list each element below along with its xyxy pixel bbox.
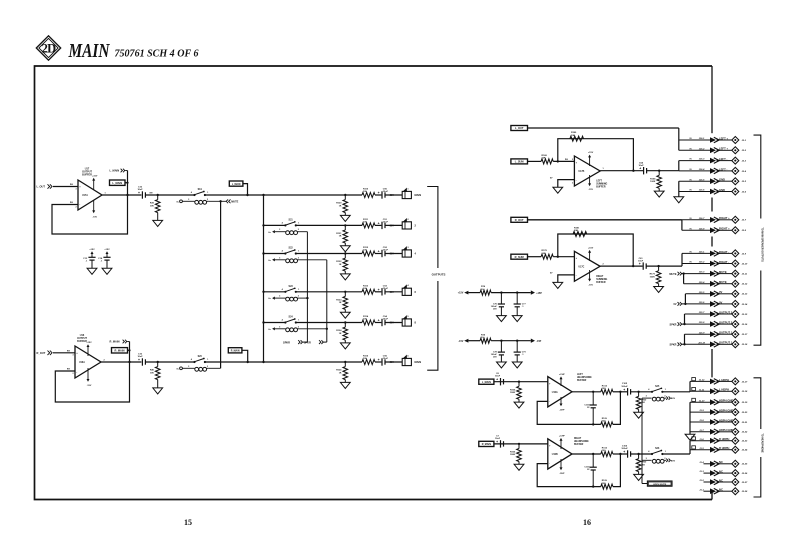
svg-text:+: + [378, 288, 380, 292]
svg-text:U10B: U10B [552, 454, 558, 456]
svg-text:+15V: +15V [92, 175, 98, 177]
svg-text:2D: 2D [42, 42, 56, 56]
svg-text:J2-20: J2-20 [742, 412, 748, 414]
svg-text:BUFFER: BUFFER [596, 186, 606, 188]
svg-text:10uF: 10uF [383, 191, 389, 193]
svg-text:J2-4: J2-4 [742, 170, 747, 173]
svg-text:2: 2 [72, 373, 73, 375]
svg-text:-: - [549, 399, 550, 403]
svg-text:R122: R122 [336, 261, 342, 263]
svg-text:R123: R123 [336, 299, 342, 301]
svg-text:J2-5: J2-5 [742, 181, 747, 183]
svg-text:25V: 25V [493, 357, 497, 359]
svg-text:U16A: U16A [79, 361, 85, 364]
svg-text:+15V: +15V [588, 152, 594, 154]
svg-text:1K: 1K [339, 264, 342, 266]
svg-text:B0V: B0V [671, 460, 676, 462]
svg-text:15: 15 [184, 518, 192, 527]
svg-text:+CHP: +CHP [559, 436, 565, 438]
svg-text:J2-21: J2-21 [742, 422, 748, 424]
svg-text:J2-16: J2-16 [742, 324, 748, 326]
svg-text:J2-22: J2-22 [742, 432, 748, 434]
svg-text:LEFT: LEFT [596, 180, 602, 182]
svg-text:J16-2: J16-2 [699, 148, 705, 150]
svg-text:SPKR: SPKR [304, 341, 311, 344]
svg-text:U17A: U17A [82, 194, 88, 197]
svg-text:+: + [378, 319, 380, 323]
svg-text:R_SUM: R_SUM [515, 255, 524, 259]
svg-text:J15-4: J15-4 [699, 281, 705, 284]
svg-text:BUFFER: BUFFER [574, 444, 584, 446]
svg-text:J2-14: J2-14 [742, 303, 748, 306]
svg-text:-15P: -15P [536, 340, 541, 343]
svg-text:U17B: U17B [578, 171, 584, 173]
svg-text:10uF: 10uF [495, 376, 501, 378]
svg-text:J16-3: J16-3 [699, 159, 705, 161]
svg-text:10uF: 10uF [383, 358, 389, 360]
svg-text:+: + [623, 388, 625, 392]
svg-text:L_SUM: L_SUM [515, 160, 524, 164]
svg-text:+: + [639, 262, 641, 266]
svg-text:J2-10: J2-10 [742, 263, 748, 265]
svg-text:L_MAIN: L_MAIN [112, 181, 122, 185]
svg-text:SUMMING: SUMMING [596, 279, 607, 281]
svg-text:R_MAIN: R_MAIN [110, 340, 120, 344]
svg-text:J2-1: J2-1 [742, 140, 747, 142]
svg-text:750761 SCH 4 OF 6: 750761 SCH 4 OF 6 [115, 49, 200, 60]
svg-text:-: - [549, 461, 550, 465]
svg-text:+: + [639, 167, 641, 171]
svg-text:1K: 1K [339, 302, 342, 304]
svg-text:25V: 25V [390, 195, 395, 197]
svg-text:J2-19: J2-19 [742, 402, 748, 404]
svg-text:R121: R121 [336, 233, 342, 235]
svg-text:J2-6: J2-6 [742, 191, 747, 193]
svg-text:10uF: 10uF [638, 165, 644, 167]
svg-text:+15V: +15V [86, 342, 92, 344]
svg-text:J1-8: J1-8 [699, 420, 704, 422]
svg-text:J1-12: J1-12 [699, 380, 705, 382]
svg-text:10K: 10K [150, 372, 154, 374]
svg-text:J16-8: J16-8 [699, 228, 705, 230]
svg-text:HEADPHONE: HEADPHONE [574, 440, 589, 443]
svg-text:25V: 25V [390, 323, 395, 325]
svg-text:L_MAIN: L_MAIN [482, 381, 491, 384]
svg-text:J16-7: J16-7 [699, 218, 705, 220]
svg-text:-15V: -15V [588, 285, 593, 287]
svg-text:J2-17: J2-17 [742, 381, 748, 383]
svg-text:J15-5: J15-5 [699, 292, 705, 294]
svg-text:3: 3 [72, 355, 73, 357]
svg-text:25V: 25V [390, 292, 395, 294]
svg-text:U10A: U10A [552, 391, 558, 394]
svg-text:+: + [138, 191, 140, 195]
svg-text:100K: 100K [650, 181, 656, 183]
svg-text:R_MAIN: R_MAIN [231, 350, 240, 353]
svg-text:+: + [138, 358, 140, 362]
svg-text:J1-5: J1-5 [699, 448, 704, 450]
svg-text:+: + [378, 358, 380, 362]
svg-text:-: - [76, 370, 77, 374]
svg-text:10uF: 10uF [383, 319, 389, 321]
svg-text:J2-2: J2-2 [742, 150, 747, 152]
svg-text:-CHP: -CHP [559, 473, 565, 475]
svg-text:-CHP: -CHP [559, 410, 565, 412]
svg-text:L_OUT: L_OUT [37, 185, 46, 189]
svg-text:J15-6: J15-6 [699, 302, 705, 304]
svg-text:J2-13: J2-13 [742, 294, 748, 296]
svg-text:J15-9: J15-9 [699, 332, 705, 334]
svg-text:SPKR: SPKR [283, 341, 290, 344]
svg-text:1K: 1K [339, 372, 342, 374]
svg-text:100K: 100K [510, 454, 516, 456]
svg-text:L_MAIN: L_MAIN [110, 169, 120, 173]
svg-text:10K: 10K [542, 253, 546, 255]
svg-text:2: 2 [75, 206, 76, 208]
svg-text:J2-12: J2-12 [742, 284, 748, 286]
svg-text:R124: R124 [336, 329, 342, 332]
svg-text:+: + [378, 250, 380, 254]
svg-text:10uF: 10uF [137, 356, 143, 358]
svg-text:R125: R125 [336, 370, 342, 372]
svg-text:25V: 25V [390, 362, 395, 364]
svg-text:J2-11: J2-11 [742, 274, 748, 276]
svg-text:+15P: +15P [536, 292, 542, 295]
svg-text:S23: S23 [289, 286, 294, 288]
svg-text:-: - [79, 202, 80, 206]
svg-text:J1-2: J1-2 [699, 480, 704, 482]
svg-text:J15-7: J15-7 [699, 312, 705, 314]
svg-text:MAIN: MAIN [415, 193, 422, 197]
svg-text:-15V: -15V [87, 385, 92, 387]
svg-text:+15V: +15V [588, 248, 594, 250]
svg-text:J2-3: J2-3 [742, 161, 747, 163]
svg-text:J16-4: J16-4 [699, 168, 705, 171]
svg-text:10uF: 10uF [137, 189, 143, 191]
svg-text:MUTE: MUTE [669, 273, 676, 276]
svg-text:J2-15: J2-15 [742, 314, 748, 316]
svg-text:10K: 10K [542, 158, 546, 160]
svg-text:100uF: 100uF [621, 448, 628, 450]
svg-text:BUFFER: BUFFER [82, 174, 92, 177]
svg-text:R106: R106 [510, 452, 516, 454]
svg-text:TO HEADPHONE: TO HEADPHONE [761, 433, 764, 453]
svg-text:J16-6: J16-6 [699, 190, 705, 192]
svg-text:25V: 25V [493, 309, 497, 311]
svg-text:3: 3 [75, 188, 76, 190]
svg-text:0V: 0V [673, 303, 676, 306]
svg-text:J2-28: J2-28 [742, 491, 748, 493]
svg-text:J1-10: J1-10 [699, 400, 705, 402]
svg-text:100K: 100K [650, 276, 656, 278]
svg-text:J2-24: J2-24 [742, 449, 748, 452]
svg-text:J15-2: J15-2 [699, 262, 705, 264]
svg-text:2: 2 [572, 159, 573, 161]
svg-text:10K: 10K [571, 135, 575, 137]
svg-text:S21: S21 [289, 220, 294, 222]
svg-text:LEFT: LEFT [577, 374, 583, 376]
svg-text:R_OUT: R_OUT [515, 218, 524, 222]
svg-text:10uF: 10uF [495, 438, 501, 440]
svg-text:S26: S26 [655, 448, 660, 450]
svg-text:MUTE: MUTE [231, 200, 238, 203]
svg-text:L_MAIN: L_MAIN [232, 183, 241, 186]
svg-text:-: - [576, 274, 577, 278]
svg-text:BUFFER: BUFFER [577, 380, 587, 382]
svg-text:10uF: 10uF [383, 250, 389, 252]
svg-text:S20: S20 [198, 356, 203, 358]
svg-text:16: 16 [583, 518, 591, 527]
svg-text:J2-7: J2-7 [742, 220, 747, 222]
svg-text:J15-8: J15-8 [699, 322, 705, 324]
svg-text:J2-26: J2-26 [742, 473, 748, 475]
svg-text:100uF: 100uF [621, 386, 628, 388]
svg-text:R_MAIN: R_MAIN [115, 349, 125, 353]
svg-text:J1-3: J1-3 [699, 471, 704, 473]
svg-text:J1-1: J1-1 [699, 489, 704, 491]
svg-text:10uF: 10uF [383, 288, 389, 290]
svg-text:1K: 1K [339, 333, 342, 335]
svg-text:+15V: +15V [89, 249, 95, 251]
svg-text:J2-18: J2-18 [742, 391, 748, 393]
svg-text:J2-23: J2-23 [742, 441, 748, 443]
svg-text:S19: S19 [198, 189, 203, 191]
svg-text:+: + [378, 191, 380, 195]
svg-text:L_OUT: L_OUT [515, 126, 524, 130]
svg-text:MAIN: MAIN [415, 360, 422, 364]
svg-text:J1-11: J1-11 [699, 389, 705, 391]
svg-text:R169: R169 [650, 178, 656, 180]
svg-text:R179: R179 [650, 274, 656, 276]
svg-text:TO MAIN SPEAKER OUTPUTS: TO MAIN SPEAKER OUTPUTS [761, 227, 764, 262]
svg-text:1K: 1K [339, 205, 342, 207]
svg-text:+: + [496, 440, 498, 444]
svg-text:J16-5: J16-5 [699, 179, 705, 181]
svg-text:J2-17: J2-17 [742, 334, 748, 336]
svg-text:J1-9: J1-9 [699, 410, 704, 412]
svg-text:J15-3: J15-3 [699, 272, 705, 274]
svg-text:R120: R120 [336, 203, 342, 205]
svg-text:-15V: -15V [458, 340, 463, 343]
svg-text:HDPH MUTE: HDPH MUTE [653, 484, 667, 486]
svg-text:J1-4: J1-4 [699, 461, 704, 464]
svg-text:J1-6: J1-6 [699, 439, 704, 441]
svg-text:1K: 1K [339, 236, 342, 238]
svg-text:R_OUT: R_OUT [37, 351, 46, 355]
svg-text:BUFFER: BUFFER [596, 282, 606, 284]
svg-text:3: 3 [572, 182, 573, 184]
svg-text:J2-27: J2-27 [742, 482, 748, 484]
svg-text:J16-1: J16-1 [699, 138, 705, 140]
svg-text:-15V: -15V [588, 189, 593, 191]
svg-text:J2-25: J2-25 [742, 464, 748, 466]
svg-text:J15-10: J15-10 [698, 342, 706, 344]
svg-text:J2-8: J2-8 [742, 230, 747, 232]
svg-text:R114: R114 [363, 315, 369, 318]
svg-text:R106: R106 [510, 389, 516, 391]
svg-text:J15-1: J15-1 [699, 252, 705, 254]
svg-text:100K: 100K [510, 392, 516, 394]
svg-text:25V: 25V [390, 254, 395, 256]
svg-text:B0V: B0V [671, 398, 676, 400]
svg-text:S24: S24 [289, 316, 294, 319]
svg-text:J2-9: J2-9 [742, 253, 747, 255]
svg-text:1K: 1K [642, 402, 645, 404]
svg-text:+: + [496, 378, 498, 382]
svg-text:-: - [576, 178, 577, 182]
svg-text:10uF: 10uF [383, 222, 389, 224]
svg-text:J1-7: J1-7 [699, 430, 704, 432]
svg-text:SPKR: SPKR [670, 344, 677, 347]
svg-text:10K: 10K [150, 205, 154, 207]
svg-text:U17C: U17C [578, 266, 584, 268]
svg-text:+15V: +15V [458, 292, 464, 295]
svg-text:SPKR: SPKR [670, 323, 677, 326]
svg-text:10uF: 10uF [638, 260, 644, 262]
svg-text:SUMMING: SUMMING [596, 183, 607, 185]
svg-text:MAIN: MAIN [68, 40, 111, 62]
svg-text:+15V: +15V [104, 249, 110, 251]
svg-text:+: + [378, 221, 380, 225]
svg-text:+: + [623, 450, 625, 454]
svg-text:OUTPUTS: OUTPUTS [432, 273, 446, 277]
svg-text:S22: S22 [289, 248, 294, 250]
svg-text:J2-18: J2-18 [742, 344, 748, 346]
svg-text:25V: 25V [390, 226, 395, 228]
svg-text:RIGHT: RIGHT [596, 276, 604, 278]
svg-text:RIGHT: RIGHT [574, 438, 582, 440]
svg-text:-15V: -15V [92, 216, 97, 218]
svg-text:S25: S25 [655, 386, 660, 388]
svg-text:HEADPHONE: HEADPHONE [577, 376, 592, 379]
svg-text:10K: 10K [574, 230, 578, 232]
svg-text:+CHP: +CHP [559, 374, 565, 376]
svg-text:R_MAIN: R_MAIN [482, 443, 491, 446]
svg-text:1K: 1K [642, 464, 645, 466]
